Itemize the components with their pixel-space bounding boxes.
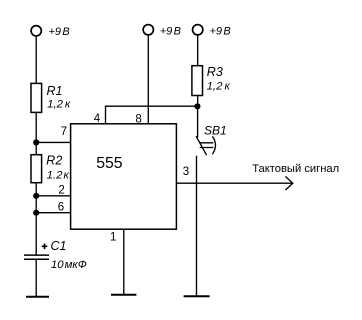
- svg-text:2: 2: [58, 184, 64, 196]
- junction dot: pin 6 node: [33, 210, 39, 216]
- wire: reset node to SB1 upper contact: [197, 106, 199, 137]
- svg-text:C1: C1: [51, 239, 67, 253]
- wire: R1 bottom to R2 top through node: [35, 112, 37, 154]
- svg-text:1,2к: 1,2к: [47, 99, 71, 111]
- svg-text:4: 4: [94, 113, 101, 125]
- svg-text:+9В: +9В: [160, 26, 181, 38]
- svg-text:10мкФ: 10мкФ: [51, 259, 87, 271]
- svg-text:R3: R3: [207, 65, 223, 79]
- svg-text:Тактовый сигнал: Тактовый сигнал: [252, 163, 339, 175]
- wire: pin 4 bracket to reset node: [106, 106, 198, 124]
- resistor R3: [192, 66, 203, 96]
- switch SB1 actuator bars: [200, 143, 214, 148]
- wire: node to pin 2 of U1: [36, 195, 70, 197]
- wire: C1 bottom to ground: [35, 260, 37, 296]
- +9V supply terminal (left): [31, 26, 41, 36]
- svg-text:+9В: +9В: [49, 26, 70, 38]
- svg-text:1,2к: 1,2к: [207, 81, 231, 93]
- wire: pin 3 output: [176, 182, 292, 184]
- svg-text:6: 6: [58, 201, 64, 213]
- svg-text:+9В: +9В: [210, 26, 231, 38]
- ground (pin 1): [111, 294, 136, 296]
- svg-text:8: 8: [135, 113, 141, 125]
- wire: node to pin 6 of U1: [36, 212, 70, 214]
- resistor R1: [31, 83, 42, 112]
- svg-text:R1: R1: [47, 84, 63, 98]
- svg-text:1: 1: [110, 232, 116, 244]
- switch SB1 blade: [196, 136, 207, 155]
- svg-text:555: 555: [96, 155, 123, 172]
- wire: node to pin 7 of U1: [36, 141, 70, 143]
- junction dot: R1/R2/pin7 node: [33, 139, 39, 145]
- svg-text:1.2к: 1.2к: [47, 170, 70, 182]
- svg-text:SB1: SB1: [204, 124, 227, 138]
- wire: left terminal to R1 top: [35, 36, 37, 83]
- op IC U1 555 timer body: [71, 124, 177, 229]
- wire: pin 1 to ground: [123, 229, 125, 295]
- junction dot: pin 2 node: [33, 193, 39, 199]
- wire: R2 bottom to C1 top through nodes: [35, 183, 37, 255]
- ground (SB1): [184, 295, 210, 297]
- svg-text:7: 7: [61, 126, 67, 138]
- ground (C1): [26, 296, 49, 298]
- wire: SB1 lower contact to ground: [196, 156, 198, 296]
- resistor R2: [31, 155, 42, 183]
- wire: middle terminal to pin 8 of U1: [147, 35, 149, 124]
- wire: R3 bottom to reset node: [197, 96, 199, 107]
- capacitor C1 plus polarity mark: [42, 244, 48, 250]
- junction dot: reset node (R3 / pin4 / SB1): [194, 103, 200, 109]
- output arrowhead: [285, 176, 292, 190]
- wire: right terminal to R3 top: [197, 35, 199, 66]
- capacitor C1 plates: [24, 255, 49, 259]
- +9V supply terminal (middle): [143, 25, 153, 35]
- svg-text:3: 3: [183, 166, 189, 178]
- switch SB1 button arc: [212, 136, 215, 154]
- svg-text:R2: R2: [46, 154, 62, 168]
- +9V supply terminal (right): [193, 25, 203, 35]
